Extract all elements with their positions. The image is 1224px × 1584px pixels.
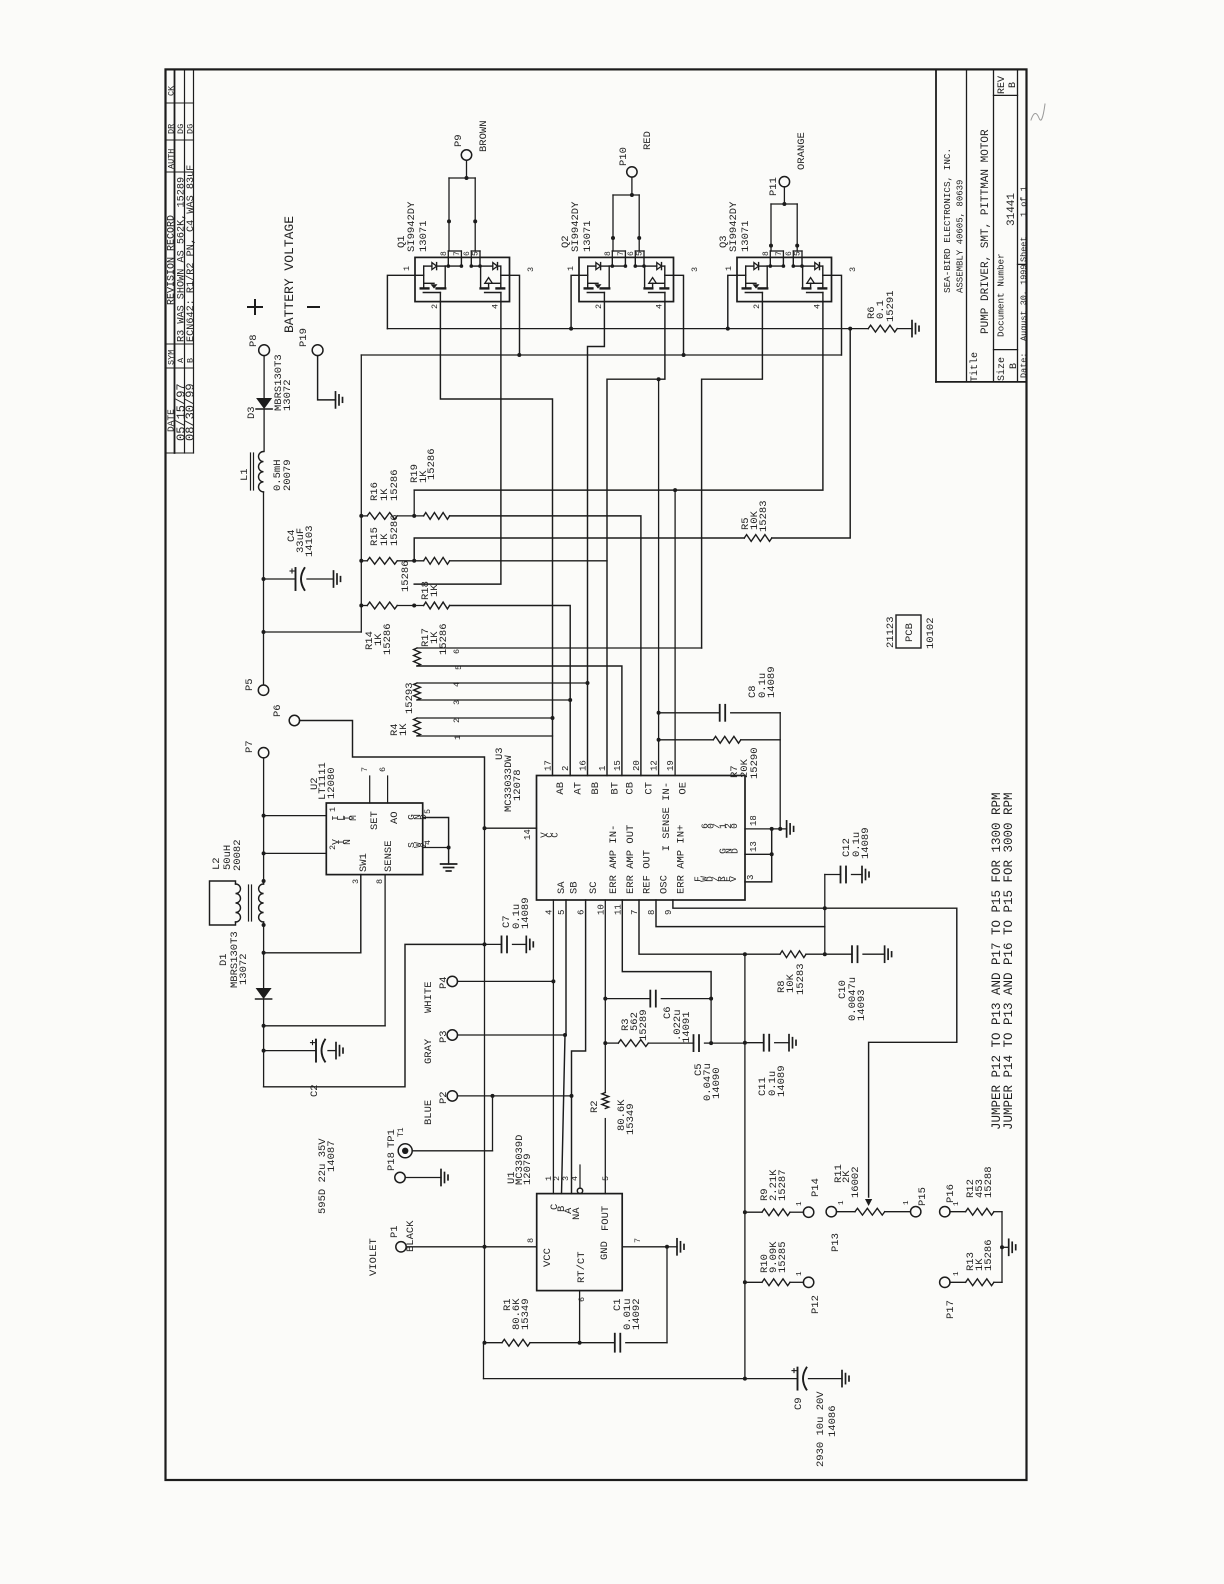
svg-text:SW1: SW1 bbox=[358, 853, 370, 872]
svg-text:13071: 13071 bbox=[740, 220, 752, 252]
wire U3 pin 14 stub bbox=[485, 827, 537, 829]
svg-text:15287: 15287 bbox=[777, 1169, 789, 1201]
svg-text:0: 0 bbox=[729, 823, 740, 829]
op-amp U2 LT1111 converter bbox=[326, 803, 422, 875]
svg-text:6: 6 bbox=[378, 767, 388, 772]
svg-text:15289: 15289 bbox=[638, 1009, 650, 1041]
svg-text:ECN642: R1/R2 PN, C4 WAS 83uF: ECN642: R1/R2 PN, C4 WAS 83uF bbox=[185, 165, 197, 342]
svg-text:1 of 1: 1 of 1 bbox=[1019, 186, 1029, 217]
connector P9 bbox=[461, 150, 471, 160]
svg-text:BROWN: BROWN bbox=[478, 120, 490, 152]
wire R4 pin4 row bbox=[417, 682, 588, 684]
connector P2 bbox=[447, 1091, 457, 1101]
svg-text:1: 1 bbox=[724, 266, 734, 271]
svg-text:6: 6 bbox=[452, 649, 462, 654]
svg-text:M: M bbox=[348, 815, 359, 821]
svg-text:P15: P15 bbox=[917, 1187, 929, 1206]
svg-text:8: 8 bbox=[526, 1238, 536, 1243]
svg-text:14103: 14103 bbox=[304, 525, 316, 557]
svg-text:P14: P14 bbox=[810, 1178, 822, 1197]
wire REF OUT to R8 row bbox=[639, 900, 745, 954]
svg-text:DG: DG bbox=[186, 124, 196, 134]
svg-text:1: 1 bbox=[402, 266, 412, 271]
svg-text:15286: 15286 bbox=[389, 514, 401, 546]
svg-text:13071: 13071 bbox=[418, 220, 430, 252]
svg-text:SYM: SYM bbox=[167, 350, 177, 365]
svg-text:GND: GND bbox=[599, 1241, 611, 1260]
wire Q1 pin3 to bus B bbox=[510, 275, 520, 355]
resistor R5 bbox=[744, 535, 771, 542]
svg-text:13071: 13071 bbox=[582, 220, 594, 252]
svg-text:13072: 13072 bbox=[238, 953, 250, 985]
svg-text:15286: 15286 bbox=[400, 560, 412, 592]
resistor R7 bbox=[659, 739, 714, 741]
wire R12 to ground node bbox=[1001, 1212, 1003, 1248]
ground at C12 bbox=[861, 867, 863, 883]
svg-text:4: 4 bbox=[423, 840, 433, 845]
svg-text:31441: 31441 bbox=[1006, 193, 1018, 226]
wire P18 to ground bbox=[405, 1177, 441, 1179]
svg-text:P8: P8 bbox=[248, 334, 260, 347]
ground at C10 bbox=[884, 946, 886, 962]
transistor Q3 SI9942DY dual MOSFET bbox=[737, 257, 832, 301]
wire ERR AMP IN+ row bbox=[673, 900, 957, 1197]
Q1 internal drain stubs bbox=[447, 257, 449, 266]
bus A source rail bbox=[387, 328, 868, 330]
wire TP1 to P2 column bbox=[412, 1150, 492, 1152]
wiper arrow on R11 bbox=[865, 1199, 872, 1206]
resistor R19 bbox=[424, 513, 450, 520]
resistor R15 bbox=[367, 557, 397, 564]
title block grid bbox=[935, 69, 937, 382]
svg-text:I SENSE IN-: I SENSE IN- bbox=[661, 782, 673, 851]
svg-text:14087: 14087 bbox=[326, 1140, 338, 1172]
svg-text:13: 13 bbox=[749, 841, 759, 852]
svg-text:SC: SC bbox=[588, 881, 600, 894]
wire Q2 pin4 to BT column bbox=[607, 302, 665, 776]
connector P12 bbox=[803, 1277, 813, 1287]
svg-text:NA: NA bbox=[571, 1207, 583, 1220]
svg-text:12080: 12080 bbox=[326, 767, 338, 799]
svg-text:3: 3 bbox=[452, 700, 462, 705]
connector P14 bbox=[803, 1207, 813, 1217]
svg-text:1K: 1K bbox=[429, 584, 441, 597]
wire U3 pin 3 bbox=[745, 829, 772, 882]
connector P13 bbox=[826, 1207, 836, 1217]
wire R13 to ground node bbox=[1001, 1247, 1003, 1282]
svg-text:Sheet: Sheet bbox=[1019, 236, 1029, 262]
ground at P19 bbox=[335, 392, 337, 408]
svg-text:Date:: Date: bbox=[1019, 352, 1029, 378]
svg-text:15349: 15349 bbox=[625, 1103, 637, 1135]
svg-text:10102: 10102 bbox=[925, 617, 937, 649]
capacitor C5 bbox=[648, 1042, 693, 1044]
battery plus symbol bbox=[248, 306, 262, 308]
svg-text:AB: AB bbox=[555, 782, 567, 795]
svg-text:Size: Size bbox=[996, 357, 1008, 381]
svg-text:1: 1 bbox=[953, 1201, 961, 1206]
svg-text:AO: AO bbox=[389, 811, 401, 824]
svg-text:OE: OE bbox=[678, 782, 690, 795]
connector P7 bbox=[258, 748, 268, 758]
wire P19 to ground bbox=[318, 356, 336, 400]
svg-text:15293: 15293 bbox=[404, 682, 416, 714]
svg-text:2930 10u 20V: 2930 10u 20V bbox=[815, 1391, 827, 1467]
svg-text:SI9942DY: SI9942DY bbox=[728, 201, 740, 252]
diode D3 bbox=[256, 398, 272, 409]
wire C6 to C5 vertical bbox=[710, 999, 712, 1044]
svg-text:VIOLET: VIOLET bbox=[368, 1238, 380, 1276]
wire ERR AMP OUT to C6 row bbox=[622, 900, 711, 999]
wire phase B tap riser with R5 row bbox=[414, 538, 744, 561]
svg-text:PUMP DRIVER, SMT, PITTMAN MOTO: PUMP DRIVER, SMT, PITTMAN MOTOR bbox=[980, 129, 992, 334]
border frame bbox=[166, 69, 1027, 1480]
svg-text:WHITE: WHITE bbox=[423, 981, 435, 1013]
svg-text:CT: CT bbox=[643, 782, 655, 795]
svg-text:15283: 15283 bbox=[758, 500, 770, 532]
svg-text:15283: 15283 bbox=[795, 963, 807, 995]
ground at U2 pin 4 bbox=[441, 863, 457, 865]
svg-text:C9: C9 bbox=[793, 1397, 805, 1410]
svg-text:DG: DG bbox=[176, 124, 186, 134]
resistor R8 bbox=[745, 953, 780, 955]
wire Q1 pin4 to phase A tap bbox=[414, 302, 501, 584]
svg-text:3: 3 bbox=[526, 267, 536, 272]
connector P8 bbox=[259, 345, 270, 356]
wire Q1 pin1 to bus A bbox=[387, 275, 415, 328]
resistor R2 bbox=[602, 1093, 609, 1109]
wire OSC to R8 node bbox=[656, 900, 825, 927]
wire Q3 pin4 to phase C tap bbox=[414, 302, 823, 491]
svg-text:20: 20 bbox=[632, 760, 642, 771]
resistor R4 section 2-1 bbox=[414, 718, 421, 736]
wire VCC to R1 row bbox=[484, 1247, 486, 1343]
svg-text:9: 9 bbox=[664, 910, 674, 915]
wire U1 pin 7 GND bbox=[622, 1246, 667, 1248]
wire R4 pin3 row bbox=[417, 699, 570, 701]
svg-text:19: 19 bbox=[666, 760, 676, 771]
svg-text:P9: P9 bbox=[453, 134, 465, 147]
resistor R3 bbox=[618, 1040, 648, 1047]
svg-text:BB: BB bbox=[590, 782, 602, 795]
svg-text:7: 7 bbox=[617, 251, 626, 256]
svg-text:CK: CK bbox=[167, 85, 177, 96]
svg-text:P2: P2 bbox=[438, 1091, 450, 1104]
svg-text:D3: D3 bbox=[246, 406, 258, 419]
wire Q3 drain pair to P11 bbox=[769, 251, 771, 257]
svg-text:D: D bbox=[729, 848, 740, 854]
ground at C11 bbox=[788, 1035, 790, 1051]
wire Q2 drain pair to P10 bbox=[611, 251, 613, 257]
test point TP1 bbox=[398, 1144, 412, 1158]
svg-text:CB: CB bbox=[624, 782, 636, 795]
svg-text:FOUT: FOUT bbox=[600, 1206, 612, 1231]
wire U2 pin 8 SENSE column bbox=[384, 875, 386, 1026]
wire OE column to U3 pin 19 bbox=[674, 490, 676, 775]
svg-text:14089: 14089 bbox=[860, 827, 872, 859]
resistor bus vertical bbox=[360, 516, 362, 632]
resistor R14 bbox=[367, 602, 397, 609]
wire SB column bbox=[562, 900, 567, 1194]
svg-text:7: 7 bbox=[775, 251, 784, 256]
svg-text:5: 5 bbox=[423, 809, 433, 814]
svg-text:1: 1 bbox=[796, 1271, 804, 1276]
svg-text:AT: AT bbox=[573, 782, 585, 795]
pencil mark bbox=[1031, 104, 1045, 120]
svg-text:2: 2 bbox=[452, 718, 462, 723]
svg-text:B: B bbox=[186, 358, 196, 363]
svg-text:BLUE: BLUE bbox=[423, 1100, 435, 1125]
ground at R6 bbox=[911, 321, 913, 337]
svg-text:ASSEMBLY 40605, 80639: ASSEMBLY 40605, 80639 bbox=[956, 180, 966, 293]
inductor L1 bbox=[259, 452, 264, 492]
wire Q2 pin1 to bus A bbox=[571, 275, 579, 328]
connector P19 bbox=[312, 345, 323, 356]
wire R16 row bbox=[361, 515, 367, 517]
svg-text:ERR AMP OUT: ERR AMP OUT bbox=[625, 825, 637, 894]
svg-text:14089: 14089 bbox=[776, 1065, 788, 1097]
op-amp U3 MC33033DW controller bbox=[537, 776, 746, 901]
svg-text:7: 7 bbox=[453, 251, 462, 256]
wire U3 pin 13 bbox=[745, 853, 772, 855]
ground at C4 bbox=[333, 571, 335, 587]
svg-text:GRAY: GRAY bbox=[423, 1038, 435, 1064]
svg-text:14089: 14089 bbox=[766, 666, 778, 698]
capacitor C11 bbox=[745, 1042, 764, 1044]
wire R4 pin5 row to CB column bbox=[417, 666, 622, 776]
svg-text:P4: P4 bbox=[438, 976, 450, 989]
wire rail bottom corner to C7 column bbox=[264, 944, 485, 1086]
svg-text:15288: 15288 bbox=[983, 1166, 995, 1198]
wire C1 to pin7 node bbox=[666, 1247, 668, 1343]
Q3 internal drain stubs bbox=[769, 257, 771, 266]
wire R18 to BT column bbox=[450, 560, 607, 562]
svg-text:14093: 14093 bbox=[856, 989, 868, 1021]
wire D1 down bbox=[263, 999, 265, 1087]
resistor R17 bbox=[424, 602, 450, 609]
svg-text:15349: 15349 bbox=[520, 1298, 532, 1330]
revision table grid bbox=[174, 69, 176, 453]
svg-text:15286: 15286 bbox=[389, 469, 401, 501]
wire Q3 pin3 to bus B bbox=[832, 275, 842, 355]
svg-text:15291: 15291 bbox=[885, 290, 897, 322]
transistor Q2 SI9942DY dual MOSFET bbox=[579, 257, 674, 301]
inductor L2 coupled bbox=[259, 884, 264, 922]
wire P4 to SA column bbox=[458, 980, 554, 982]
svg-text:N: N bbox=[342, 839, 353, 845]
wire R4 pin2 row bbox=[417, 717, 553, 719]
svg-text:2: 2 bbox=[752, 304, 762, 309]
connector P11 bbox=[779, 177, 789, 187]
wire U1 pin 8 VCC bbox=[485, 1246, 537, 1248]
connector P6 bbox=[289, 715, 299, 725]
svg-text:C: C bbox=[551, 832, 561, 838]
svg-text:L1: L1 bbox=[239, 468, 251, 481]
svg-text:3: 3 bbox=[746, 875, 756, 880]
svg-text:REF OUT: REF OUT bbox=[642, 850, 654, 894]
svg-text:15286: 15286 bbox=[382, 623, 394, 655]
wire R4 pin6 row to Q3 phase bbox=[417, 647, 702, 649]
connector P15 bbox=[911, 1207, 921, 1217]
wire sense tap row bbox=[264, 1025, 386, 1027]
svg-text:RED: RED bbox=[642, 131, 654, 150]
svg-text:1: 1 bbox=[953, 1271, 961, 1276]
svg-text:3: 3 bbox=[848, 267, 858, 272]
capacitor C12 bbox=[825, 874, 841, 876]
svg-text:ERR AMP IN-: ERR AMP IN- bbox=[608, 825, 620, 894]
svg-text:12079: 12079 bbox=[522, 1153, 534, 1185]
wire phase C tap riser bbox=[413, 490, 415, 516]
svg-text:7: 7 bbox=[633, 1238, 643, 1243]
wire P1 to VCC node bbox=[406, 1246, 484, 1248]
svg-text:P17: P17 bbox=[945, 1300, 957, 1319]
svg-text:6: 6 bbox=[577, 1297, 587, 1302]
svg-text:RT/CT: RT/CT bbox=[576, 1251, 588, 1283]
svg-text:4: 4 bbox=[570, 1176, 580, 1181]
svg-text:Document Number: Document Number bbox=[996, 253, 1007, 337]
resistor R16 bbox=[367, 513, 397, 520]
wire U2 pin 5 to pin 4 to ground bbox=[423, 818, 449, 865]
capacitor C4 bbox=[264, 578, 295, 580]
resistor R4 section 4-3 bbox=[414, 683, 421, 700]
ground at C2 bbox=[335, 1043, 337, 1059]
svg-text:T1: T1 bbox=[397, 1127, 406, 1137]
resistor R18 bbox=[424, 557, 450, 564]
svg-text:SA: SA bbox=[556, 881, 568, 894]
svg-text:P12: P12 bbox=[810, 1295, 822, 1314]
svg-text:2: 2 bbox=[594, 304, 604, 309]
svg-text:12: 12 bbox=[650, 760, 660, 771]
node C4 junction bbox=[262, 577, 266, 581]
ground at P18 bbox=[440, 1170, 442, 1186]
transistor Q1 SI9942DY dual MOSFET bbox=[415, 257, 510, 301]
wire U3 pin 18 bbox=[745, 828, 772, 830]
svg-text:VCC: VCC bbox=[542, 1248, 554, 1267]
svg-text:ERR AMP IN+: ERR AMP IN+ bbox=[675, 825, 687, 894]
svg-text:3: 3 bbox=[690, 267, 700, 272]
wire U2 pin 2 bbox=[264, 852, 327, 854]
resistor R10 bbox=[745, 1281, 762, 1283]
svg-text:17: 17 bbox=[544, 760, 554, 771]
svg-text:15286: 15286 bbox=[983, 1239, 995, 1271]
wire C8/R7 to pin18 node bbox=[779, 713, 781, 829]
resistor R13 bbox=[950, 1281, 966, 1283]
wire pin7 to ground bbox=[667, 1246, 677, 1248]
svg-text:4: 4 bbox=[491, 304, 501, 309]
svg-text:BATTERY VOLTAGE: BATTERY VOLTAGE bbox=[282, 216, 297, 333]
wire P8 to D3 bbox=[263, 356, 265, 398]
svg-text:2: 2 bbox=[561, 766, 571, 771]
wire SA column bbox=[552, 900, 554, 1194]
wire pin18 node to ground bbox=[772, 828, 787, 830]
svg-text:1: 1 bbox=[838, 1200, 846, 1205]
wire P2 junction down to TP1 row bbox=[492, 1096, 494, 1151]
svg-text:BT: BT bbox=[610, 782, 622, 795]
connector P17 bbox=[940, 1277, 950, 1287]
svg-text:14089: 14089 bbox=[520, 897, 532, 929]
svg-text:5: 5 bbox=[601, 1176, 611, 1181]
resistor R12 bbox=[950, 1211, 966, 1213]
resistor R6 bbox=[868, 325, 897, 332]
wire VCC column down bbox=[484, 828, 486, 1247]
svg-text:P3: P3 bbox=[438, 1030, 450, 1043]
svg-text:P13: P13 bbox=[830, 1233, 842, 1252]
resistor R9 bbox=[745, 1211, 762, 1213]
wire Q2 pin3 to bus B bbox=[674, 275, 684, 355]
svg-text:14090: 14090 bbox=[711, 1067, 723, 1099]
svg-text:14086: 14086 bbox=[827, 1405, 839, 1437]
svg-text:1K: 1K bbox=[398, 723, 410, 736]
wire Q3 pin2 to phase jog bbox=[702, 302, 763, 648]
connector P4 bbox=[447, 976, 457, 986]
connector P3 bbox=[447, 1030, 457, 1040]
ground at C9 bbox=[841, 1371, 843, 1387]
svg-text:P16: P16 bbox=[945, 1184, 957, 1203]
svg-text:A: A bbox=[176, 357, 186, 363]
capacitor C9 bbox=[797, 1368, 799, 1390]
svg-text:1: 1 bbox=[796, 1201, 804, 1206]
svg-text:AUTH: AUTH bbox=[167, 149, 177, 169]
svg-text:1: 1 bbox=[566, 266, 576, 271]
ground at R12/R13 bbox=[1002, 1246, 1009, 1248]
capacitor C8 bbox=[659, 712, 720, 714]
wire battery node to resistor bus bbox=[264, 631, 362, 633]
wire P7 rail down bbox=[263, 758, 265, 884]
ground at C7 bbox=[525, 936, 527, 952]
svg-text:2: 2 bbox=[430, 304, 440, 309]
wire Q1 pin2 to AB column bbox=[440, 302, 552, 776]
wire rail below L2 bbox=[263, 922, 265, 988]
svg-text:SI9942DY: SI9942DY bbox=[406, 201, 418, 252]
svg-text:15286: 15286 bbox=[426, 448, 438, 480]
resistor R4 section 6-5 bbox=[414, 648, 421, 666]
capacitor C6 bbox=[605, 998, 650, 1000]
connector P10 bbox=[627, 167, 637, 177]
svg-text:SENSE: SENSE bbox=[383, 840, 395, 872]
svg-text:16: 16 bbox=[579, 760, 589, 771]
wire R15 row bbox=[361, 560, 367, 562]
svg-text:14092: 14092 bbox=[631, 1298, 643, 1330]
capacitor C10 bbox=[825, 953, 852, 955]
svg-text:1: 1 bbox=[598, 766, 608, 771]
svg-text:15290: 15290 bbox=[749, 747, 761, 779]
svg-text:12078: 12078 bbox=[512, 769, 524, 801]
svg-text:V: V bbox=[728, 876, 739, 882]
svg-text:SB: SB bbox=[569, 881, 581, 894]
svg-text:PCB: PCB bbox=[904, 623, 916, 642]
wire OSC column join bbox=[824, 875, 826, 955]
wire I SENSE column to U3 pin 12 bbox=[658, 379, 660, 775]
svg-text:15: 15 bbox=[613, 760, 623, 771]
wire R4 pin1 row to AB column bbox=[417, 735, 553, 737]
svg-text:13072: 13072 bbox=[282, 379, 294, 411]
svg-text:SEA-BIRD ELECTRONICS, INC.: SEA-BIRD ELECTRONICS, INC. bbox=[942, 148, 953, 293]
diode D1 bbox=[256, 988, 272, 999]
svg-text:P7: P7 bbox=[244, 740, 256, 753]
PCB item box bbox=[896, 615, 921, 648]
svg-text:ORANGE: ORANGE bbox=[796, 132, 808, 170]
wire SC column bbox=[572, 900, 586, 1194]
svg-text:P18: P18 bbox=[386, 1152, 398, 1171]
U2 pin 6 stub bbox=[387, 776, 389, 803]
connector P1 bbox=[396, 1242, 406, 1252]
svg-text:P6: P6 bbox=[272, 704, 284, 717]
svg-text:7: 7 bbox=[360, 767, 370, 772]
svg-text:4: 4 bbox=[813, 304, 823, 309]
svg-text:JUMPER P14 TO P13 AND P16 TO P: JUMPER P14 TO P13 AND P16 TO P15 FOR 300… bbox=[1002, 792, 1016, 1130]
svg-text:Title: Title bbox=[969, 352, 981, 382]
svg-text:P19: P19 bbox=[298, 328, 310, 347]
